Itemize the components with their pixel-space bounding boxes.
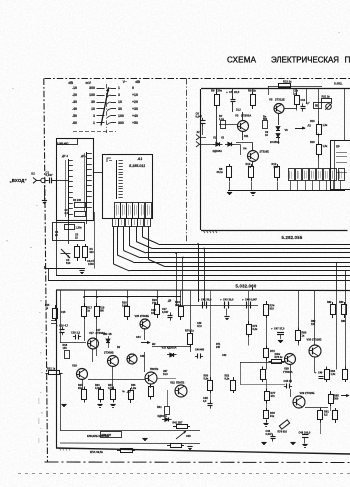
svg-text:100: 100 [63,347,68,350]
svg-text:-40: -40 [72,107,77,111]
svg-text:R83: R83 [341,320,346,323]
svg-text:5.052.: 5.052. [334,82,343,86]
svg-text:0,047: 0,047 [251,299,258,302]
svg-text:-30: -30 [72,100,77,104]
svg-text:„ВХОД”: „ВХОД” [10,178,27,183]
svg-text:22,0: 22,0 [234,90,240,94]
svg-text:47,0: 47,0 [197,325,202,328]
svg-text:3: 3 [93,114,95,118]
svg-text:Н30: Н30 [103,333,108,336]
svg-text:П: П [345,54,350,64]
svg-text:С45 1В: С45 1В [284,380,293,383]
svg-text:3,0: 3,0 [65,212,69,215]
svg-text:Х2: Х2 [196,131,201,134]
svg-text:8,2к: 8,2к [225,378,230,381]
svg-text:V3: V3 [235,114,239,118]
svg-text:С49: С49 [318,372,323,375]
svg-text:V5: V5 [269,98,273,102]
svg-text:2Т312Б: 2Т312Б [275,98,285,102]
svg-text:300: 300 [118,121,124,125]
svg-text:-10: -10 [72,86,77,90]
svg-text:47к: 47к [271,394,276,398]
svg-text:R70: R70 [185,329,190,333]
svg-text:910: 910 [90,251,95,254]
svg-text:5.282.055: 5.282.055 [282,235,303,240]
svg-text:1,5к: 1,5к [323,124,328,127]
svg-text:С16: С16 [59,325,64,328]
svg-text:+30: +30 [132,107,138,111]
svg-text:30,1к: 30,1к [217,170,224,174]
svg-text:2,2: 2,2 [77,332,81,335]
svg-text:1: 1 [93,121,95,125]
svg-text:V22: V22 [170,381,175,385]
svg-text:С10: С10 [301,99,306,102]
svg-text:2Т306В: 2Т306В [104,351,114,355]
svg-text:37,0: 37,0 [280,328,285,331]
svg-text:R31: R31 [157,406,162,409]
svg-text:1,5к: 1,5к [323,145,328,148]
svg-text:V~: V~ [123,80,127,84]
svg-text:100: 100 [89,93,95,97]
svg-text:5.155.011: 5.155.011 [129,164,145,168]
svg-text:5.032.060: 5.032.060 [236,284,257,289]
svg-text:1000: 1000 [88,262,94,266]
svg-text:2Д103А: 2Д103А [213,149,223,153]
svg-text:Д9: Д9 [167,300,172,303]
svg-text:Х1: Х1 [30,172,35,176]
svg-text:30: 30 [118,107,122,111]
svg-text:С44: С44 [245,299,250,302]
svg-text:ДГ-1: ДГ-1 [61,154,68,158]
svg-text:Л1: Л1 [307,124,312,128]
svg-text:+: + [198,298,200,302]
svg-text:ГТ503А: ГТ503А [283,370,293,374]
svg-text:R79 910: R79 910 [278,431,288,434]
svg-text:30: 30 [91,100,95,104]
svg-text:С43: С43 [223,299,228,302]
svg-text:10: 10 [118,100,122,104]
svg-text:0,047: 0,047 [46,173,53,177]
svg-text:R16: R16 [310,120,315,123]
svg-text:СХЕМА: СХЕМА [227,55,257,64]
svg-text:+40: +40 [132,114,138,118]
svg-text:0: 0 [132,86,134,90]
svg-text:V29 2Т316Б: V29 2Т316Б [300,391,315,395]
svg-text:-60: -60 [72,121,77,125]
svg-text:510: 510 [66,261,71,265]
svg-text:+: + [226,90,228,94]
svg-text:4,7: 4,7 [65,325,69,328]
svg-text:С41: С41 [201,299,206,302]
svg-text:С17: С17 [96,329,101,332]
svg-text:0,047: 0,047 [196,114,203,118]
svg-text:1,30к: 1,30к [76,227,83,230]
svg-text:V25 2Т306Б: V25 2Т306Б [135,314,150,318]
svg-text:+: + [220,298,222,302]
svg-text:110: 110 [311,323,316,326]
svg-text:R18: R18 [310,141,315,144]
svg-text:3: 3 [118,93,120,97]
svg-text:ПР: ПР [336,145,340,149]
svg-text:dB: dB [68,81,73,85]
svg-text:-50: -50 [72,114,77,118]
svg-text:460: 460 [200,349,205,352]
svg-text:dB: dB [135,80,140,84]
svg-text:240: 240 [216,346,221,349]
svg-text:1: 1 [118,86,120,90]
svg-text:С42: С42 [222,354,227,357]
svg-text:0,047: 0,047 [162,311,169,314]
svg-text:1,2м: 1,2м [131,387,136,390]
svg-text:+: + [242,298,244,302]
svg-text:91к: 91к [270,414,275,418]
svg-text:910: 910 [270,307,275,311]
svg-text:П307В: П307В [176,381,184,385]
svg-text:10: 10 [91,107,95,111]
svg-text:V6: V6 [285,128,289,132]
svg-text:+: + [271,327,273,331]
svg-text:ЭЛЕКТРИЧЕСКАЯ: ЭЛЕКТРИЧЕСКАЯ [271,55,339,64]
svg-text:300: 300 [334,397,339,401]
svg-text:2Т316Б: 2Т316Б [260,150,270,154]
svg-text:+: + [56,324,58,328]
svg-text:mV: mV [86,81,92,85]
svg-text:V30 2Т316Б: V30 2Т316Б [307,338,322,342]
svg-text:R82: R82 [327,301,332,304]
svg-text:6,2к: 6,2к [253,328,258,331]
svg-text:R83: R83 [339,301,344,304]
svg-text:5.080.48С: 5.080.48С [57,142,69,145]
svg-text:V17: V17 [89,331,94,335]
svg-text:100: 100 [118,114,124,118]
svg-text:R9: R9 [248,89,252,93]
svg-text:В4: В4 [152,342,156,346]
svg-text:1,5к: 1,5к [331,373,336,376]
svg-text:9В: 9В [109,333,112,336]
svg-text:С47: С47 [274,328,279,331]
svg-text:10,2: 10,2 [236,109,241,112]
svg-text:-20: -20 [72,93,77,97]
svg-text:С15: С15 [61,311,66,314]
svg-text:560: 560 [100,309,105,313]
svg-text:С36: С36 [140,355,145,358]
svg-text:+50: +50 [132,121,138,125]
svg-text:С18: С18 [71,332,76,335]
svg-text:300: 300 [89,86,95,90]
svg-text:R11: R11 [244,135,249,138]
svg-text:∿: ∿ [122,390,125,394]
svg-text:КПА 09,5к: КПА 09,5к [90,450,103,454]
svg-text:R2 240: R2 240 [73,199,82,202]
svg-text:С34: С34 [136,336,141,339]
svg-text:П307В: П307В [150,367,158,371]
svg-text:А1: А1 [137,157,143,161]
svg-text:100: 100 [151,312,156,315]
svg-text:V18: V18 [72,364,77,368]
svg-text:КЛ8 КЛ7: КЛ8 КЛ7 [102,434,112,437]
svg-text:+20: +20 [132,100,138,104]
svg-text:5В: 5В [315,105,318,108]
svg-text:V4: V4 [243,147,247,151]
svg-text:0,047: 0,047 [266,433,273,436]
svg-text:+10: +10 [132,93,138,97]
svg-text:R21 2к: R21 2к [322,95,331,99]
svg-text:8,2: 8,2 [324,413,328,417]
svg-text:30,0: 30,0 [229,299,234,302]
svg-text:С38: С38 [186,435,191,438]
svg-text:10,0: 10,0 [163,373,168,376]
svg-text:130к: 130к [216,89,222,93]
svg-text:R6: R6 [211,89,215,93]
svg-text:50,0: 50,0 [207,299,212,302]
svg-text:R76 2к: R76 2к [275,356,284,359]
